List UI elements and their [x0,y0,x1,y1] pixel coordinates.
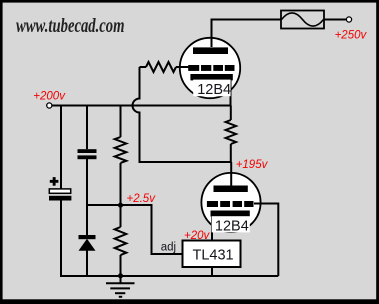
svg-text:+20v: +20v [184,230,211,242]
svg-text:+200v: +200v [33,91,66,103]
svg-text:+195v: +195v [236,159,269,171]
svg-text:12B4: 12B4 [215,219,249,235]
svg-text:+250v: +250v [335,30,368,42]
svg-text:12B4: 12B4 [197,82,231,98]
svg-text:adj: adj [161,242,176,254]
svg-text:TL431: TL431 [193,247,234,263]
svg-text:+2.5v: +2.5v [127,193,157,205]
svg-text:www.tubecad.com: www.tubecad.com [16,15,125,37]
